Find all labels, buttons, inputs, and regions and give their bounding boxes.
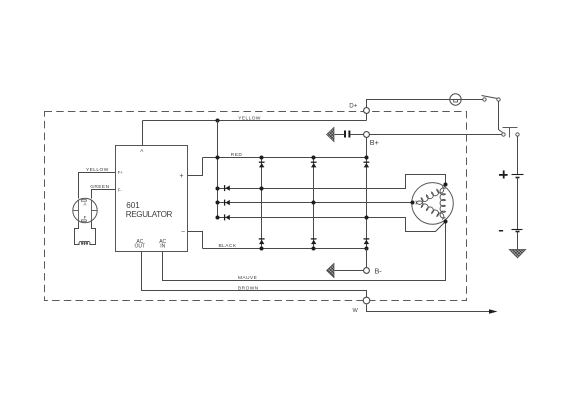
battery ground bbox=[509, 250, 526, 258]
wire GREEN to F- bbox=[92, 190, 116, 199]
field winding loop bbox=[75, 222, 80, 245]
svg-text:B-: B- bbox=[375, 267, 383, 276]
wire capacitor to ground bbox=[335, 134, 345, 136]
wire rectifier column 3 bbox=[366, 158, 368, 249]
svg-text:YELLOW: YELLOW bbox=[86, 167, 109, 173]
diode D6 (col3 bottom) bbox=[364, 239, 370, 244]
wire lamp to switch bbox=[462, 99, 483, 101]
svg-text:W: W bbox=[353, 308, 359, 314]
diode D1 (col1 top) bbox=[259, 162, 265, 167]
stator circle bbox=[412, 183, 454, 225]
wire AC OUT / BROWN bbox=[142, 252, 367, 298]
svg-text:F: F bbox=[84, 215, 87, 220]
wire rectifier column 2 bbox=[313, 158, 315, 249]
wire up to D+ bbox=[366, 114, 368, 121]
wire B+ down to red rail bbox=[366, 138, 368, 158]
battery link bbox=[517, 178, 519, 230]
switch actuator T bbox=[503, 127, 518, 129]
svg-text:−: − bbox=[181, 228, 185, 235]
wire battery to ground bbox=[517, 232, 519, 250]
wire rectifier column 1 bbox=[261, 158, 263, 249]
wire trio bus bbox=[217, 121, 219, 218]
battery cell - bbox=[512, 229, 523, 231]
wire YELLOW to F+ bbox=[79, 173, 116, 199]
ground at B+ capacitor bbox=[327, 127, 335, 141]
svg-text:BROWN: BROWN bbox=[238, 286, 259, 292]
junction dots black rail bbox=[260, 247, 264, 251]
svg-text:RED: RED bbox=[231, 152, 243, 158]
ignition switch lower contacts bbox=[502, 133, 505, 136]
diode D7 (trio row1) bbox=[225, 185, 230, 191]
terminal B- bbox=[364, 268, 370, 274]
stator terminal dots bbox=[444, 183, 448, 187]
wire W tachometer arrow bbox=[367, 305, 490, 312]
field winding coil bbox=[79, 241, 90, 244]
wire switch to lower contact bbox=[499, 102, 503, 133]
capacitor C1 bbox=[351, 134, 364, 136]
svg-text:IN: IN bbox=[160, 243, 165, 249]
regulator 601 box bbox=[116, 146, 188, 252]
svg-text:A: A bbox=[84, 201, 87, 206]
diode D4 (col1 bottom) bbox=[259, 239, 265, 244]
svg-text:YELLOW: YELLOW bbox=[238, 115, 261, 121]
wire phase row 1 bbox=[218, 175, 446, 189]
svg-text:+: + bbox=[179, 173, 183, 180]
diode D9 (trio row3) bbox=[225, 214, 230, 220]
junction yellow/trio bus bbox=[216, 119, 220, 123]
svg-text:F-: F- bbox=[118, 187, 123, 192]
terminal D+ bbox=[364, 108, 370, 114]
svg-text:REGULATOR: REGULATOR bbox=[126, 210, 173, 219]
wire RED rail bbox=[203, 157, 367, 159]
ignition switch upper contacts bbox=[483, 98, 486, 101]
wire switch to battery + bbox=[517, 136, 519, 175]
wire B- to ground bbox=[335, 270, 364, 272]
svg-text:BLACK: BLACK bbox=[219, 243, 237, 249]
wire B+ to switch bbox=[370, 134, 502, 136]
junction dots phase rows bbox=[260, 187, 264, 191]
svg-text:OUT: OUT bbox=[135, 243, 146, 249]
wire BLACK rail bbox=[203, 248, 367, 250]
wire D+ to lamp bbox=[367, 100, 451, 109]
junction dots red rail bbox=[216, 156, 220, 160]
rotor brush connector circle bbox=[73, 198, 97, 222]
stator winding top bbox=[416, 186, 444, 204]
terminal W bbox=[363, 297, 370, 304]
label - bbox=[499, 230, 503, 232]
wire YELLOW top run bbox=[143, 120, 367, 122]
diode D8 (trio row2) bbox=[225, 200, 230, 206]
wire black rail to B- bbox=[366, 249, 368, 269]
wire phase row 2 bbox=[218, 202, 413, 204]
ground at B- bbox=[327, 263, 335, 277]
dashed alternator enclosure border bbox=[45, 112, 467, 301]
wire AC IN / MAUVE bbox=[163, 224, 446, 281]
label + bbox=[499, 174, 508, 176]
svg-text:601: 601 bbox=[126, 201, 140, 210]
diode D5 (col2 bottom) bbox=[311, 239, 317, 244]
wire A terminal up bbox=[142, 121, 144, 146]
svg-text:GREEN: GREEN bbox=[90, 184, 109, 190]
battery cell + bbox=[512, 174, 524, 176]
wire phase row 3 bbox=[218, 218, 446, 232]
warning lamp bbox=[450, 94, 461, 105]
junction dots trio bus bbox=[216, 187, 220, 191]
svg-text:B+: B+ bbox=[370, 138, 379, 147]
wire regulator + to red rail bbox=[188, 158, 203, 176]
svg-text:F+: F+ bbox=[118, 170, 124, 175]
stator winding left bbox=[416, 201, 444, 220]
diode D2 (col2 top) bbox=[311, 162, 317, 167]
stator winding right bbox=[440, 188, 445, 218]
wire regulator - to black rail bbox=[188, 232, 203, 249]
svg-text:D+: D+ bbox=[349, 103, 357, 110]
diode D3 (col3 top) bbox=[364, 162, 370, 167]
switch lever bbox=[482, 96, 498, 99]
svg-text:MAUVE: MAUVE bbox=[238, 275, 257, 281]
